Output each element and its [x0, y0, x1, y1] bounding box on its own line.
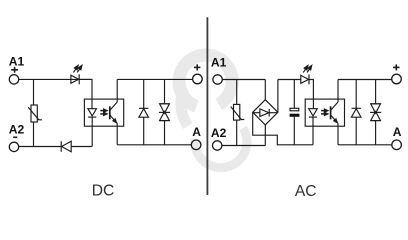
wire varistor riser bottom: [33, 122, 35, 147]
diode V1 (reverse protection, bottom line): [60, 141, 62, 152]
bridge rectifier V4 (AC): [253, 100, 278, 125]
svg-text:A: A: [192, 125, 201, 139]
terminal A (AC): [392, 140, 402, 150]
wire emitter riser (AC): [337, 123, 339, 144]
polarity + (DC A1): [11, 67, 18, 73]
terminal + (DC): [193, 74, 203, 84]
phototransistor Q2 (AC): [330, 106, 332, 119]
wire varistor riser top (AC): [236, 80, 238, 105]
wire + output rail (DC): [117, 78, 192, 80]
wire emitter riser: [116, 123, 118, 144]
optocoupler U1 box (DC): [84, 99, 123, 126]
svg-text:A: A: [393, 125, 402, 139]
svg-text:A1: A1: [9, 55, 25, 69]
LED indicator (AC): [301, 75, 309, 83]
svg-text:DC: DC: [92, 183, 115, 200]
wire collector riser to + rail (AC): [337, 80, 339, 103]
opto light arrows (AC): [321, 110, 325, 112]
wire A output rail (DC): [117, 144, 191, 146]
svg-text:A2: A2: [9, 122, 25, 136]
svg-text:A2: A2: [211, 126, 227, 140]
optocoupler U2 box (AC): [305, 99, 344, 126]
suppressor diode V6 (AC output, bidirectional): [375, 80, 377, 104]
wire bridge - output step: [253, 112, 313, 145]
terminal + (AC): [392, 74, 402, 84]
wire varistor riser bottom (AC): [236, 120, 238, 145]
wire A1 top rail: [19, 78, 92, 80]
watermark: [179, 55, 247, 168]
terminal A1 (DC): [9, 75, 18, 84]
wire varistor riser top: [33, 79, 35, 105]
wire A2 bottom rail (AC): [222, 145, 265, 147]
LED indicator (DC): [71, 75, 79, 83]
capacitor C1 (AC): [293, 80, 295, 109]
varistor R2 (AC): [234, 104, 240, 120]
terminal A (DC): [191, 140, 201, 150]
wire collector riser to + rail: [116, 79, 118, 102]
wire LED to optocoupler: [79, 79, 92, 108]
svg-text:A1: A1: [211, 55, 227, 69]
opto LED (DC): [88, 109, 97, 116]
wire A2 bottom rail left: [19, 146, 61, 148]
wire A1 top rail (AC): [222, 79, 265, 81]
wire A2 bottom rail right: [71, 146, 92, 148]
diode V5 branch (AC output): [355, 80, 357, 109]
suppressor diode V3 (DC output, bidirectional): [164, 79, 166, 103]
wire bridge bottom riser: [264, 125, 266, 146]
polarity - (DC A2): [13, 136, 17, 138]
opto LED (AC): [309, 109, 318, 116]
phototransistor Q1 (DC): [109, 106, 111, 119]
terminal A2 (AC): [213, 141, 222, 150]
terminal A2 (DC): [9, 142, 18, 151]
diode V2 branch (DC output): [143, 79, 145, 108]
varistor R1: [31, 105, 37, 122]
svg-text:AC: AC: [295, 183, 317, 200]
terminal A1 (AC): [213, 75, 222, 84]
wire LED to optocoupler (AC): [309, 80, 313, 109]
wire opto LED cathode riser (AC): [312, 117, 314, 145]
wire bridge top riser: [264, 80, 266, 100]
wire opto LED cathode riser: [91, 117, 93, 146]
wire bridge + output riser: [277, 80, 279, 113]
divider line: [206, 17, 208, 195]
opto light arrows (DC): [100, 110, 104, 112]
